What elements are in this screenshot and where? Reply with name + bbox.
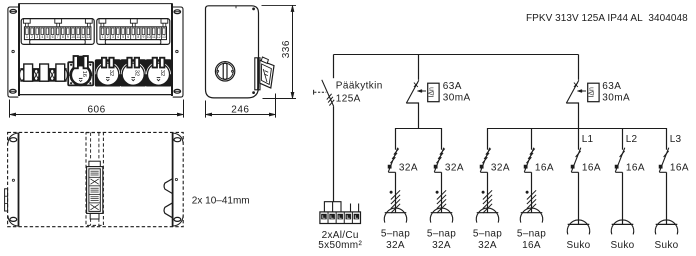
side view: inlet socket (angled) [255, 57, 274, 90]
svg-text:6: 6 [52, 35, 54, 39]
label: Suko [611, 240, 635, 251]
svg-text:3: 3 [112, 35, 114, 39]
svg-text:7: 7 [57, 35, 59, 39]
dimension 606 [10, 100, 184, 118]
svg-text:1: 1 [102, 35, 104, 39]
svg-text:336: 336 [281, 40, 292, 58]
svg-text:32: 32 [159, 70, 165, 76]
side view: enclosure body [206, 6, 259, 98]
front view: schuko socket bar [20, 64, 68, 81]
label: 5-nap 32A [427, 229, 456, 251]
bottom view: hidden outline (dashed) [8, 132, 184, 226]
front view: CEE socket 32A #1 [95, 58, 120, 86]
svg-text:30mA: 30mA [602, 93, 630, 104]
svg-text:L2: L2 [626, 134, 638, 145]
terminal block X0: supply 2xAl/Cu 5x50mm2 [320, 202, 361, 224]
svg-text:32A: 32A [432, 240, 451, 251]
svg-text:Suko: Suko [567, 240, 591, 251]
front view: DIN terminal strip block 1 [21, 19, 94, 45]
svg-text:5–nap: 5–nap [381, 229, 410, 240]
svg-text:2: 2 [31, 35, 33, 39]
label: F2 63A 30mA [602, 81, 630, 104]
node L1 [582, 134, 594, 145]
front view: right mounting flange [173, 7, 183, 97]
svg-text:5–nap: 5–nap [427, 229, 456, 240]
main switch Q1 Paakytkin 125A [314, 80, 335, 106]
svg-text:32: 32 [108, 70, 114, 76]
bottom view: terminal stack on rail [87, 161, 103, 219]
circuit breaker Q4 32A (3-pole) [480, 128, 510, 173]
bottom view: base plate edges [19, 133, 173, 227]
svg-text:5: 5 [46, 35, 48, 39]
svg-text:30mA: 30mA [443, 93, 471, 104]
svg-text:8: 8 [137, 35, 139, 39]
node L2 [626, 134, 638, 145]
svg-text:16: 16 [81, 71, 87, 77]
svg-text:2x 10–41mm: 2x 10–41mm [192, 195, 250, 206]
svg-text:32A: 32A [491, 162, 510, 173]
svg-text:125A: 125A [336, 94, 361, 105]
svg-text:32: 32 [134, 70, 140, 76]
label: F1 63A 30mA [443, 81, 471, 104]
bottom view: corner lugs with slots [8, 133, 183, 226]
svg-text:8: 8 [62, 35, 64, 39]
RCD F1 63A 30mA [406, 55, 439, 129]
svg-text:13: 13 [162, 35, 166, 39]
svg-text:32A: 32A [478, 240, 497, 251]
circuit breaker Q6 16A (1-pole) [571, 128, 601, 173]
svg-text:13: 13 [86, 35, 90, 39]
svg-text:63A: 63A [443, 81, 462, 92]
svg-text:16A: 16A [670, 162, 689, 173]
bottom view: wall bracket [5, 189, 8, 211]
front view: left mounting flange [8, 7, 18, 97]
svg-text:L1: L1 [582, 134, 594, 145]
socket outlet suko X5 [567, 172, 589, 234]
wire: main switch to terminal block [333, 106, 335, 202]
circuit breaker Q8 16A (1-pole) [659, 128, 689, 173]
front view: CEE socket 32A #2 [121, 58, 146, 86]
socket outlet X3 5-nap 32A [476, 172, 498, 222]
svg-text:16A: 16A [626, 162, 645, 173]
label: 2xAl/Cu 5x50mm2 [318, 230, 362, 251]
socket outlet X4 5-nap 16A [520, 172, 542, 222]
node: sub-bus group 1 [396, 128, 442, 130]
svg-text:6: 6 [127, 35, 129, 39]
svg-text:63A: 63A [602, 81, 621, 92]
label: 2x 10-41mm [192, 195, 250, 206]
socket outlet suko X6 [611, 172, 633, 234]
svg-text:FPKV 313V 125A IP44 AL 340404: FPKV 313V 125A IP44 AL 3404048 [526, 13, 688, 24]
front view: DIN terminal strip block 2 [97, 19, 170, 45]
front view: CEE socket 16A [68, 56, 93, 85]
label: Suko [655, 240, 679, 251]
svg-text:10: 10 [147, 35, 151, 39]
svg-text:7: 7 [132, 35, 134, 39]
circuit breaker Q7 16A (1-pole) [615, 128, 645, 173]
socket outlet suko X7 [655, 172, 677, 234]
svg-text:16A: 16A [535, 162, 554, 173]
node: sub-bus group 2 [488, 128, 667, 130]
node: main bus [334, 54, 579, 56]
svg-text:5x50mm²: 5x50mm² [318, 240, 362, 251]
svg-text:2: 2 [107, 35, 109, 39]
label: 5-nap 32A [381, 229, 410, 251]
svg-text:10: 10 [71, 35, 75, 39]
svg-text:16A: 16A [582, 162, 601, 173]
RCD F2 63A 30mA [566, 55, 599, 129]
svg-text:16A: 16A [522, 240, 541, 251]
svg-text:3: 3 [36, 35, 38, 39]
circuit breaker Q5 16A (3-pole) [524, 128, 554, 173]
svg-text:11: 11 [152, 35, 156, 39]
label: Suko [567, 240, 591, 251]
svg-text:Pääkytkin: Pääkytkin [336, 81, 383, 92]
svg-text:IΔn: IΔn [588, 87, 595, 98]
label: 5-nap 16A [517, 229, 546, 251]
socket outlet X2 5-nap 32A [430, 172, 452, 222]
label: 5-nap 32A [473, 229, 502, 251]
bottom view: centre rail (hidden, dashed) [86, 133, 103, 226]
wire: bus to main switch [333, 55, 335, 79]
svg-text:9: 9 [67, 35, 69, 39]
dimension 246 [206, 94, 276, 118]
svg-text:4: 4 [117, 35, 119, 39]
svg-text:5–nap: 5–nap [517, 229, 546, 240]
circuit breaker Q3 32A (3-pole) [434, 128, 464, 173]
svg-text:32A: 32A [445, 162, 464, 173]
svg-text:12: 12 [81, 35, 85, 39]
front view: enclosure body [19, 3, 172, 96]
svg-text:9: 9 [143, 35, 145, 39]
svg-text:4: 4 [41, 35, 43, 39]
svg-text:IΔn: IΔn [428, 87, 435, 98]
svg-text:5–nap: 5–nap [473, 229, 502, 240]
svg-text:12: 12 [157, 35, 161, 39]
svg-text:32A: 32A [386, 240, 405, 251]
label: Paakytkin 125A [336, 81, 383, 105]
svg-text:11: 11 [76, 35, 80, 39]
svg-text:Suko: Suko [655, 240, 679, 251]
socket outlet X1 5-nap 32A [384, 172, 406, 222]
dimension 336 [262, 5, 297, 98]
side view: main switch knob [215, 62, 234, 81]
svg-text:L3: L3 [670, 134, 682, 145]
circuit breaker Q2 32A (3-pole) [388, 128, 418, 173]
svg-text:246: 246 [231, 105, 249, 116]
svg-text:32A: 32A [399, 162, 418, 173]
svg-text:606: 606 [88, 105, 106, 116]
node L3 [670, 134, 682, 145]
svg-text:Suko: Suko [611, 240, 635, 251]
svg-text:1: 1 [26, 35, 28, 39]
svg-text:5: 5 [122, 35, 124, 39]
bottom view: cable entries 10-41mm [164, 179, 173, 218]
title text FPKV 313V 125A IP44 AL 3404048 [526, 13, 688, 24]
front view: CEE socket 32A #3 [146, 58, 171, 86]
